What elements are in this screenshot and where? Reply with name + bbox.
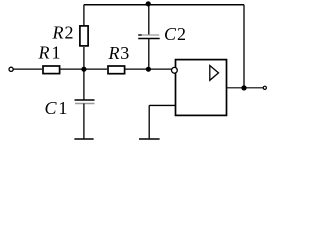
svg-text:R1: R1 xyxy=(38,43,61,63)
svg-text:C2: C2 xyxy=(164,24,186,44)
svg-text:R2: R2 xyxy=(52,22,74,42)
svg-text:C1: C1 xyxy=(45,98,68,118)
svg-text:R3: R3 xyxy=(108,43,130,63)
